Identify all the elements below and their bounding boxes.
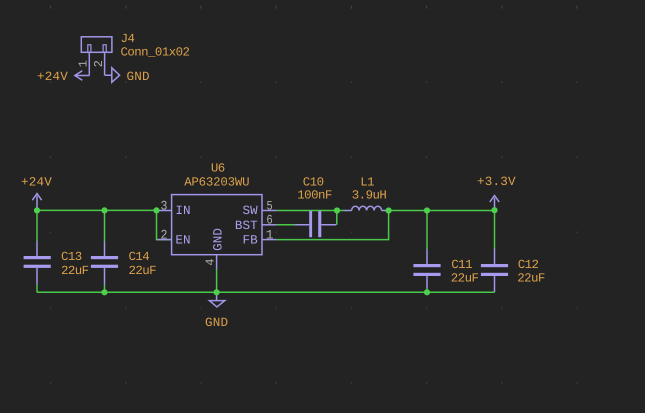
capacitor C13 [24, 241, 51, 285]
grid dots [50, 6, 578, 384]
svg-text:+3.3V: +3.3V [477, 175, 516, 189]
wire output rail [389, 210, 495, 212]
wire C13 bottom [36, 285, 38, 292]
power symbol +24V (left arrow) [75, 71, 90, 81]
pin 4 stub [216, 255, 218, 269]
svg-text:AP63203WU: AP63203WU [184, 175, 249, 189]
svg-text:J4: J4 [121, 32, 135, 46]
svg-text:C11: C11 [451, 258, 472, 272]
junction node C14 top [101, 207, 107, 213]
junction node GND stub [214, 289, 220, 295]
J4 pin 2 wire [104, 52, 106, 75]
junction node C11 bottom [424, 289, 430, 295]
capacitor C11 [413, 249, 440, 289]
svg-text:100nF: 100nF [297, 188, 332, 202]
junction node SW-C10 [334, 207, 340, 213]
capacitor C10 [295, 211, 337, 237]
svg-text:22uF: 22uF [517, 272, 545, 286]
svg-text:C10: C10 [303, 175, 324, 189]
pin 1 stub [262, 239, 276, 241]
wire BST net [276, 224, 294, 226]
J4 pin 2 hook [103, 45, 106, 53]
inductor L1 [337, 206, 389, 210]
capacitor C14 [91, 241, 118, 285]
svg-text:22uF: 22uF [451, 272, 479, 286]
svg-text:GND: GND [205, 316, 228, 330]
svg-text:Conn_01x02: Conn_01x02 [121, 46, 190, 60]
svg-text:U6: U6 [211, 161, 225, 175]
wire C11 bottom [426, 289, 428, 293]
wire C10 right riser [336, 211, 338, 225]
junction node L1 out [386, 207, 392, 213]
svg-text:1: 1 [266, 227, 274, 242]
wire C13 top [36, 210, 38, 241]
power symbol +24V (main, arrow up) [32, 194, 41, 211]
pin 3 stub [157, 210, 171, 212]
svg-text:5: 5 [266, 198, 272, 213]
svg-text:SW: SW [242, 204, 258, 218]
wire ground rail [37, 291, 495, 293]
connector J4 body [81, 37, 112, 53]
wire EN drop [157, 210, 172, 239]
svg-text:1: 1 [77, 60, 91, 67]
svg-text:C14: C14 [129, 250, 150, 264]
svg-text:22uF: 22uF [61, 264, 89, 278]
wire FB net [276, 211, 388, 240]
pin 6 stub [262, 224, 276, 226]
power symbol +3.3V (arrow up) [490, 196, 499, 211]
capacitor C12 [481, 249, 508, 293]
wire C14 bottom [104, 285, 106, 292]
svg-text:4: 4 [204, 259, 218, 266]
svg-text:3: 3 [161, 198, 168, 213]
svg-text:GND: GND [211, 228, 225, 251]
junction node C14 bottom [101, 289, 107, 295]
svg-text:22uF: 22uF [129, 264, 157, 278]
wire top-left rail [37, 209, 157, 211]
svg-text:6: 6 [266, 212, 272, 227]
junction node +24V rail left [34, 207, 40, 213]
svg-text:EN: EN [175, 234, 190, 248]
power symbol GND (right triangle) [105, 68, 120, 83]
op-amp U6 body [172, 195, 262, 255]
svg-text:+24V: +24V [37, 70, 68, 84]
wire pin4 to ground rail [216, 269, 218, 292]
J4 pin 1 hook [88, 45, 91, 53]
svg-text:2: 2 [161, 227, 168, 242]
svg-text:+24V: +24V [21, 176, 52, 190]
svg-text:C13: C13 [61, 250, 82, 264]
wire C11 top [426, 211, 428, 250]
pin 2 stub [157, 239, 171, 241]
svg-text:GND: GND [127, 70, 150, 84]
pin 5 stub [262, 210, 276, 212]
svg-text:FB: FB [242, 234, 258, 248]
svg-text:3.9uH: 3.9uH [352, 188, 387, 202]
svg-text:C12: C12 [518, 258, 539, 272]
svg-text:BST: BST [235, 219, 258, 233]
junction node C11 top [424, 207, 430, 213]
wire C12 top [494, 211, 496, 249]
svg-text:2: 2 [92, 60, 106, 67]
power symbol GND (bottom) [209, 292, 224, 307]
svg-text:IN: IN [175, 204, 190, 218]
wire C14 top [104, 210, 106, 241]
J4 pin 1 wire [88, 52, 90, 75]
junction node +3.3V [491, 207, 497, 213]
junction node EN branch [153, 207, 159, 213]
svg-text:L1: L1 [360, 175, 374, 189]
wire SW net [276, 210, 337, 212]
